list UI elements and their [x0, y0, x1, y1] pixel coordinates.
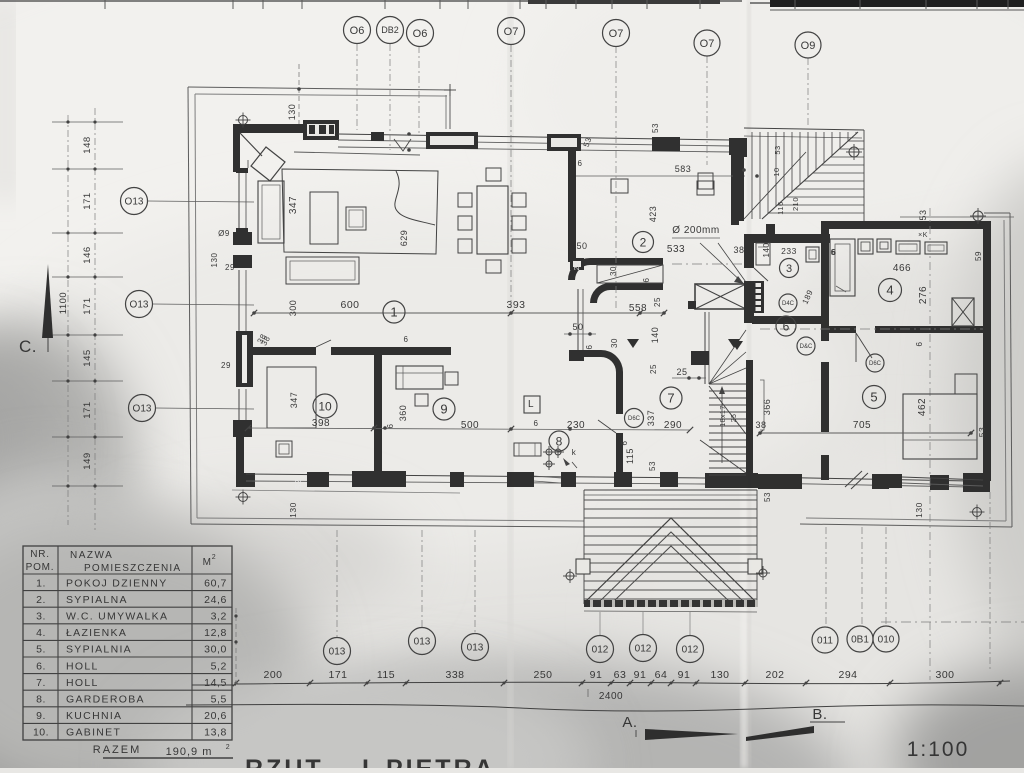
svg-text:8.: 8.	[36, 694, 46, 706]
bottom wall window lines	[246, 474, 705, 478]
svg-text:NR.: NR.	[30, 549, 50, 560]
window mullion post	[371, 132, 384, 141]
grid circle O13 c	[129, 395, 156, 422]
wall post	[614, 472, 632, 487]
svg-text:6: 6	[915, 341, 924, 346]
grid circle O7b	[603, 20, 630, 47]
svg-text:115: 115	[377, 669, 395, 681]
room 2 furniture squares	[611, 179, 628, 193]
door gap lines	[534, 476, 561, 478]
axis mark right wing	[973, 211, 983, 221]
svg-text:462: 462	[917, 398, 928, 416]
partition axis dash line	[760, 328, 983, 330]
grid circle 013 bottom c	[462, 634, 489, 661]
svg-text:146: 146	[82, 246, 93, 263]
svg-text:53: 53	[773, 145, 782, 154]
svg-text:53: 53	[918, 209, 928, 220]
table row 1. POKOJ DZIENNY	[23, 590, 232, 592]
carpet outline living room	[282, 169, 438, 254]
svg-text:6: 6	[831, 248, 836, 257]
svg-text:115: 115	[625, 448, 635, 464]
svg-text:4: 4	[886, 283, 893, 298]
svg-text:149: 149	[82, 452, 93, 469]
svg-text:6: 6	[585, 344, 594, 349]
svg-text:13,8: 13,8	[204, 727, 227, 739]
room 4 fixtures row	[858, 239, 873, 254]
rooms 4/5 partition wall	[829, 326, 856, 333]
svg-text:600: 600	[340, 299, 359, 311]
wall room10/9 top	[248, 347, 316, 355]
svg-text:398: 398	[312, 418, 330, 429]
svg-text:L: L	[528, 399, 534, 410]
table row 9. KUCHNIA	[23, 722, 232, 724]
room 3 door gap swing	[754, 268, 768, 281]
svg-text:24,6: 24,6	[204, 594, 227, 606]
room 2 right exterior wall	[731, 154, 739, 225]
kitchen top wall	[349, 347, 451, 355]
window box T2	[426, 132, 478, 149]
section wedge B	[746, 726, 814, 741]
svg-text:6: 6	[642, 277, 651, 282]
svg-text:14,5: 14,5	[204, 677, 227, 689]
wall pier	[307, 472, 329, 487]
svg-text:59: 59	[974, 251, 983, 261]
left wall window box W2	[233, 232, 252, 245]
svg-text:25: 25	[731, 414, 738, 423]
svg-text:HOLL: HOLL	[66, 677, 99, 689]
stair wall black box	[691, 351, 709, 365]
svg-text:ŁAZIENKA: ŁAZIENKA	[66, 627, 127, 639]
axis mark stairs	[849, 147, 859, 157]
chimney axis dash	[672, 263, 750, 265]
svg-text:130: 130	[287, 104, 297, 121]
grid circle O13 b	[126, 291, 153, 318]
svg-text:O13: O13	[133, 404, 152, 415]
wall post	[872, 474, 889, 489]
dim line 705	[760, 432, 971, 434]
interior staircase winder edge	[704, 312, 706, 384]
left wall window W5	[238, 389, 240, 420]
svg-text:25: 25	[653, 297, 662, 307]
svg-text:O6: O6	[413, 28, 428, 40]
stair winder fan lines	[709, 330, 746, 384]
flue block column of small squares	[746, 281, 764, 313]
axis line x930	[929, 208, 931, 680]
coffee table	[310, 192, 338, 244]
room 1 / room 2 divider wall	[568, 150, 576, 262]
svg-text:M: M	[203, 557, 212, 568]
svg-text:POM.: POM.	[26, 562, 55, 573]
grid circle O6	[344, 17, 371, 44]
svg-text:338: 338	[445, 669, 464, 681]
svg-text:9: 9	[440, 402, 447, 417]
svg-text:171: 171	[82, 401, 93, 418]
sofa	[258, 181, 284, 243]
svg-text:130: 130	[210, 253, 219, 268]
svg-text:50: 50	[572, 322, 583, 332]
wall pier	[507, 472, 534, 487]
wall pier	[758, 474, 802, 489]
table row 6. HOLL	[23, 673, 232, 675]
svg-text:233: 233	[781, 246, 797, 256]
svg-text:6: 6	[783, 319, 790, 333]
kitchen counters	[396, 366, 443, 389]
grid circle 012 a	[587, 636, 614, 663]
room label 1	[383, 301, 405, 323]
dining chairs	[458, 193, 472, 207]
door mark D&C corridor	[797, 337, 815, 355]
svg-text:PIETRA: PIETRA	[386, 755, 496, 768]
grid circle 0B1	[847, 626, 873, 652]
svg-text:D6C: D6C	[869, 361, 882, 367]
svg-text:145: 145	[82, 349, 93, 366]
room label 3	[780, 259, 799, 278]
room label 10	[313, 394, 337, 418]
svg-text:RZUT: RZUT	[245, 755, 324, 768]
grid circle O7	[498, 18, 525, 45]
right wing bottom wall	[888, 474, 902, 488]
grid circle O9	[795, 32, 821, 58]
svg-text:705: 705	[853, 420, 871, 431]
exterior stair horizontals	[848, 140, 864, 142]
terrace dark fascia band	[584, 600, 757, 607]
svg-text:Ø9: Ø9	[218, 229, 230, 238]
terrace columns	[576, 559, 590, 574]
grid circle 011	[812, 627, 838, 653]
svg-text:SYPIALNA: SYPIALNA	[66, 594, 128, 606]
svg-text:POKOJ DZIENNY: POKOJ DZIENNY	[66, 577, 168, 589]
grid circle O13 a	[121, 188, 148, 215]
door swing hall 7	[598, 420, 616, 433]
grid circle O7c	[694, 30, 720, 56]
chimney crossed box	[695, 284, 746, 309]
table row 4. &#321;AZIENKA	[23, 639, 232, 641]
right wing top wall	[821, 221, 990, 229]
svg-text:Ø 200mm: Ø 200mm	[672, 225, 719, 236]
side table	[346, 207, 366, 230]
flue leader arrows	[700, 243, 744, 284]
table row 10. GABINET	[23, 739, 232, 741]
svg-text:O7: O7	[609, 28, 624, 40]
room label 5	[863, 386, 886, 409]
table row 7. HOLL	[23, 689, 232, 691]
svg-text:393: 393	[506, 299, 525, 311]
svg-text:250: 250	[533, 669, 552, 681]
svg-text:290: 290	[664, 420, 682, 431]
door mark D6-C room5	[866, 354, 884, 372]
svg-text:91: 91	[590, 669, 603, 681]
section wedge A	[645, 729, 738, 740]
corner post top-right of living wing	[729, 138, 746, 155]
svg-text:D&C: D&C	[800, 344, 813, 350]
small box on curve	[570, 258, 584, 270]
wall pier / threshold	[352, 471, 406, 487]
grid circle 010	[873, 626, 899, 652]
svg-text:130: 130	[914, 502, 924, 518]
svg-text:2: 2	[226, 744, 230, 751]
svg-text:O7: O7	[700, 38, 715, 50]
survey mark bottom-right	[973, 508, 982, 517]
svg-text:W.C. UMYWALKA: W.C. UMYWALKA	[66, 611, 168, 623]
svg-text:013: 013	[329, 647, 346, 658]
svg-text:7.: 7.	[36, 677, 46, 689]
svg-text:6: 6	[620, 440, 629, 445]
room 3 left wall	[744, 243, 754, 268]
svg-text:012: 012	[592, 645, 609, 656]
room label 9	[433, 398, 455, 420]
axis leaders bottom	[336, 530, 338, 637]
svg-text:30: 30	[609, 266, 618, 276]
svg-text:6: 6	[578, 159, 583, 168]
svg-text:10: 10	[318, 399, 332, 413]
stove diamond top-left corner	[251, 147, 285, 181]
chimney top wall	[688, 301, 696, 309]
window band top (3 sill lines)	[338, 134, 731, 140]
room 4 crossed shaft	[952, 298, 974, 326]
svg-text:171: 171	[328, 669, 347, 681]
svg-text:533: 533	[667, 244, 685, 255]
svg-text:I: I	[362, 755, 372, 768]
scan edge tick marks	[104, 0, 106, 9]
svg-text:50: 50	[576, 241, 587, 251]
room 8 fixtures	[514, 443, 541, 456]
terrace hatch lines	[585, 499, 757, 501]
svg-text:011: 011	[817, 636, 833, 647]
svg-text:SYPIALNIA: SYPIALNIA	[66, 644, 132, 656]
svg-text:B.: B.	[812, 706, 827, 723]
svg-text:53: 53	[651, 123, 660, 133]
exterior stair outline	[744, 128, 864, 130]
door swing room 10	[316, 340, 331, 347]
svg-text:1:100: 1:100	[907, 738, 970, 761]
svg-text:3.: 3.	[36, 611, 46, 623]
window box T4	[652, 137, 680, 151]
svg-text:4.: 4.	[36, 627, 46, 639]
wall pier	[930, 475, 949, 490]
svg-text:7: 7	[667, 391, 674, 406]
svg-text:RAZEM: RAZEM	[93, 744, 142, 756]
svg-text:200: 200	[263, 669, 282, 681]
svg-text:3,2: 3,2	[211, 611, 227, 623]
table row 3. W.C. UMYWALKA	[23, 623, 232, 625]
terrace outline	[584, 489, 757, 491]
svg-text:91: 91	[678, 669, 691, 681]
svg-text:38: 38	[733, 245, 744, 255]
svg-text:013: 013	[467, 643, 484, 654]
svg-text:25: 25	[649, 364, 658, 374]
svg-text:29: 29	[221, 361, 231, 370]
svg-text:294: 294	[838, 669, 857, 681]
survey mark bottom-left	[239, 493, 248, 502]
wall pier	[660, 472, 678, 487]
door mark D6-C hall	[625, 409, 644, 428]
svg-text:10.: 10.	[33, 727, 49, 739]
kitchen right wall thin	[577, 289, 579, 350]
grid circle 013 bottom b	[409, 628, 436, 655]
room label 6	[776, 316, 796, 336]
room 10 furniture	[267, 367, 316, 428]
svg-text:9.: 9.	[36, 710, 46, 722]
hall 7 curved wall	[583, 350, 623, 404]
svg-text:52: 52	[294, 479, 303, 489]
svg-text:140: 140	[762, 243, 771, 258]
svg-text:2400: 2400	[599, 691, 623, 702]
svg-text:0B1: 0B1	[851, 635, 869, 646]
svg-text:NAZWA: NAZWA	[70, 550, 113, 561]
grid circle 012 b	[630, 635, 657, 662]
svg-text:18x17: 18x17	[720, 405, 727, 427]
table row 5. SYPIALNIA	[23, 656, 232, 658]
svg-text:D6C: D6C	[628, 416, 641, 422]
svg-text:8: 8	[556, 434, 563, 448]
hatched low wall (fireplace bench)	[597, 265, 663, 283]
svg-text:POMIESZCZENIA: POMIESZCZENIA	[84, 563, 181, 574]
long dim row mid	[248, 428, 690, 430]
grid circle 012 c	[677, 636, 704, 663]
svg-text:347: 347	[288, 196, 299, 214]
dining table	[477, 186, 508, 254]
svg-text:O6: O6	[350, 25, 365, 37]
svg-text:D4C: D4C	[782, 301, 795, 307]
wall post	[450, 472, 464, 487]
svg-text:63: 63	[614, 669, 627, 681]
level marks hall	[627, 339, 639, 348]
svg-text:347: 347	[289, 392, 299, 409]
svg-text:KUCHNIA: KUCHNIA	[66, 710, 122, 722]
svg-text:12,8: 12,8	[204, 627, 227, 639]
svg-text:64: 64	[655, 669, 668, 681]
grid circle O6b	[407, 20, 434, 47]
svg-text:22: 22	[574, 262, 581, 271]
left dimension ticks	[52, 121, 123, 123]
svg-text:012: 012	[635, 644, 652, 655]
exterior stair diagonal	[762, 132, 858, 219]
roof eaves outline left wing	[188, 87, 450, 90]
svg-text:25: 25	[676, 367, 687, 377]
dim line 600/393	[254, 312, 664, 314]
left wall window frame W4 (room 10)	[236, 334, 242, 384]
svg-text:276: 276	[918, 286, 929, 304]
survey mark top-left	[239, 116, 248, 125]
interior stairs right wall	[746, 360, 753, 478]
north arrow C	[42, 264, 53, 338]
room 3 bottom wall	[752, 316, 822, 324]
svg-text:202: 202	[765, 669, 784, 681]
svg-text:GABINET: GABINET	[66, 727, 121, 739]
svg-text:558: 558	[629, 303, 647, 314]
stair threshold wall	[705, 473, 758, 488]
chain leader passing into table row 7	[192, 684, 236, 686]
long wavy base line	[186, 704, 1024, 711]
room 4 cabinet tall	[830, 239, 855, 296]
svg-text:583: 583	[675, 164, 692, 174]
svg-text:30: 30	[610, 338, 619, 348]
svg-text:2.: 2.	[36, 594, 46, 606]
window break symbol	[845, 471, 868, 489]
svg-text:HOLL: HOLL	[66, 660, 99, 672]
svg-text:O13: O13	[125, 197, 144, 208]
svg-text:012: 012	[682, 645, 699, 656]
room label 8	[549, 431, 569, 451]
svg-text:300: 300	[288, 300, 298, 317]
carpet curve 629	[395, 171, 435, 225]
svg-text:010: 010	[878, 635, 895, 646]
svg-text:2: 2	[640, 235, 647, 249]
bottom chain line	[236, 681, 1010, 684]
svg-text:466: 466	[893, 263, 911, 274]
roof eaves outline right side	[1010, 213, 1012, 527]
room 5 bed	[903, 394, 977, 459]
svg-text:300: 300	[935, 669, 954, 681]
svg-text:366: 366	[762, 399, 772, 416]
window box T3	[547, 134, 581, 151]
valves	[546, 449, 552, 455]
left wall window W1	[238, 172, 240, 228]
window opening marks	[394, 139, 411, 151]
level mark in stairs	[731, 341, 743, 350]
room label 4	[879, 279, 902, 302]
svg-text:53: 53	[763, 492, 772, 502]
svg-text:91: 91	[634, 669, 647, 681]
svg-text:1100: 1100	[58, 292, 69, 314]
axis leaders from top circles	[356, 44, 358, 130]
scan edge dark bars (previous page)	[528, 0, 720, 4]
table row 2. SYPIALNA	[23, 606, 232, 608]
dim line right wing top	[900, 216, 1014, 218]
room label 7	[660, 387, 682, 409]
room 1 nook lower wall with curve	[610, 283, 663, 290]
svg-text:A.: A.	[622, 714, 637, 731]
exterior stair treads vertical	[751, 132, 753, 219]
svg-text:140: 140	[650, 327, 660, 344]
sideboard	[286, 257, 359, 284]
terrace hip roof diagonals	[584, 518, 757, 603]
left wall bottom corner	[236, 437, 244, 487]
hall 7 lower wall	[616, 404, 623, 414]
paper shading	[0, 0, 860, 390]
stair up arrow	[721, 390, 723, 463]
wall post	[561, 472, 576, 487]
svg-text:423: 423	[648, 206, 658, 223]
roof eaves outline bottom left	[191, 524, 584, 527]
svg-text:6: 6	[404, 335, 409, 344]
left wall window box W6	[233, 420, 252, 437]
svg-text:116: 116	[776, 201, 785, 214]
svg-text:148: 148	[82, 136, 93, 153]
scan edge top line	[0, 0, 742, 2]
left vertical axis lines	[67, 115, 69, 525]
right wing left wall	[821, 221, 829, 341]
stair treads	[709, 383, 746, 385]
bottom wall right section	[758, 477, 970, 481]
svg-text:3: 3	[786, 263, 792, 275]
svg-text:×K: ×K	[918, 232, 928, 239]
svg-text:013: 013	[414, 637, 431, 648]
svg-text:360: 360	[398, 405, 408, 422]
svg-text:6: 6	[386, 423, 395, 428]
exterior stair left wall	[733, 138, 747, 157]
svg-text:171: 171	[82, 297, 93, 314]
svg-text:210: 210	[791, 197, 800, 211]
wall with hatch top of room 8	[569, 350, 584, 361]
svg-text:10: 10	[772, 167, 781, 176]
room 3 fixtures	[756, 243, 770, 265]
svg-text:38: 38	[755, 420, 766, 430]
svg-text:130: 130	[710, 669, 729, 681]
inner face line of top wall	[294, 152, 420, 155]
svg-text:20,6: 20,6	[204, 710, 227, 722]
svg-text:C.: C.	[19, 337, 37, 356]
